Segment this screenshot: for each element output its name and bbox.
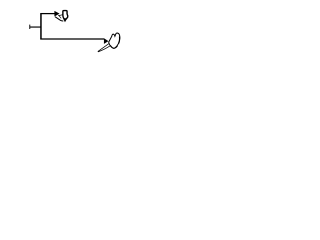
string lower strand — [98, 45, 111, 52]
bottom arrowhead — [104, 38, 109, 44]
string crossing strand — [59, 15, 61, 18]
tag body — [109, 33, 120, 48]
bottom wire — [40, 38, 104, 40]
top icon: tag with string loop, hanging down — [55, 11, 68, 21]
tag point fill — [64, 18, 66, 21]
bottom curve accent — [111, 46, 118, 49]
vertical wire — [40, 13, 42, 39]
wire from terminal to junction — [30, 26, 42, 28]
bottom icon: tag with string loop, pointing down-left — [98, 33, 120, 52]
string loop bottom band — [55, 17, 63, 21]
thick right edge — [119, 37, 120, 44]
input terminal tick — [28, 25, 31, 29]
tag body — [63, 11, 68, 21]
string upper strand — [98, 43, 110, 51]
top arrowhead — [54, 11, 59, 17]
top wire — [40, 13, 54, 15]
string upper strand — [58, 14, 62, 17]
